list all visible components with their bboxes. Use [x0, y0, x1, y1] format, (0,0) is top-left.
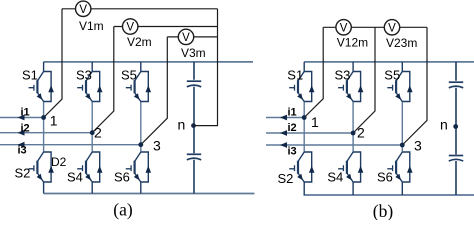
- node 1 (a): [41, 115, 46, 120]
- svg-text:i1: i1: [288, 106, 297, 118]
- transistor S6b (IGBT with antiparallel diode): [387, 152, 412, 195]
- svg-text:i1: i1: [21, 106, 30, 118]
- capacitor C1 (a upper): [187, 81, 201, 87]
- svg-text:S6: S6: [377, 170, 393, 185]
- svg-text:n: n: [178, 116, 186, 132]
- transistor S2 (IGBT with antiparallel diode): [29, 152, 54, 194]
- svg-text:(a): (a): [113, 200, 133, 220]
- wire: phase current line i2 (b): [266, 132, 353, 134]
- svg-text:i3: i3: [18, 145, 27, 157]
- wire: phase current line i3 (a): [0, 144, 141, 146]
- wire: leg 3 midpoint run (a): [140, 101, 142, 153]
- svg-text:2: 2: [357, 125, 365, 141]
- wire: phase current line i3 (b): [266, 144, 402, 146]
- transistor S2b (IGBT with antiparallel diode): [289, 152, 314, 195]
- voltmeter V3m: [178, 29, 193, 44]
- capacitor C2 (a lower): [187, 154, 201, 160]
- transistor S3 (IGBT with antiparallel diode): [77, 62, 102, 102]
- svg-text:S4: S4: [67, 170, 83, 185]
- wire: V1m leads (a): [44, 9, 218, 118]
- svg-text:2: 2: [94, 125, 102, 141]
- svg-text:S3: S3: [76, 68, 92, 83]
- svg-text:S3: S3: [335, 68, 351, 83]
- svg-text:S4: S4: [327, 170, 343, 185]
- transistor S4 (IGBT with antiparallel diode): [77, 152, 102, 194]
- svg-text:S1: S1: [287, 68, 303, 83]
- svg-text:i2: i2: [288, 122, 297, 134]
- wire: phase current line i1 (a): [0, 117, 44, 119]
- wire: DC-link capacitor branch (b): [455, 62, 457, 195]
- svg-text:1: 1: [50, 113, 58, 129]
- wire: V23m right lead (b): [400, 27, 427, 145]
- node 2 (a): [90, 130, 95, 135]
- svg-text:V2m: V2m: [127, 35, 152, 49]
- svg-text:S5: S5: [384, 68, 400, 83]
- node 2 (b): [351, 131, 356, 136]
- svg-text:V: V: [340, 23, 348, 35]
- wire: voltmeter return to neutral n (a): [194, 9, 218, 126]
- transistor S1b (IGBT with antiparallel diode): [289, 62, 314, 102]
- wire: V12m leads (b): [304, 27, 384, 117]
- transistor S3b (IGBT with antiparallel diode): [338, 62, 363, 102]
- svg-text:V: V: [182, 32, 190, 44]
- svg-text:3: 3: [414, 138, 422, 154]
- wire: V12m/V23m node-2 tap (b): [353, 27, 375, 133]
- wire: DC- bottom bus (b): [304, 194, 474, 196]
- svg-text:S5: S5: [121, 68, 137, 83]
- node 3 (b): [400, 143, 405, 148]
- svg-text:V: V: [79, 4, 87, 16]
- wire: phase current line i2 (a): [0, 132, 92, 134]
- svg-text:V1m: V1m: [79, 19, 104, 33]
- wire: leg 2 midpoint run (a): [91, 101, 93, 153]
- capacitor C1 (b upper): [449, 82, 463, 88]
- capacitor C2 (b lower): [449, 156, 463, 162]
- transistor S4b (IGBT with antiparallel diode): [338, 152, 363, 195]
- svg-text:S6: S6: [114, 170, 130, 185]
- node 3 (a): [138, 142, 143, 147]
- wire: DC+ top bus (b): [304, 61, 474, 63]
- svg-text:(b): (b): [373, 201, 394, 220]
- voltmeter V2m: [123, 19, 138, 34]
- wire: DC- bottom bus (a): [44, 193, 255, 195]
- svg-text:D2: D2: [51, 155, 67, 169]
- wire: phase current line i1 (b): [266, 117, 304, 119]
- transistor S6 (IGBT with antiparallel diode): [126, 152, 151, 194]
- wire: leg 3 midpoint run (b): [401, 101, 403, 153]
- svg-text:S2: S2: [15, 166, 31, 181]
- wire: DC-link capacitor branch (a): [193, 62, 195, 194]
- svg-text:V3m: V3m: [181, 46, 206, 60]
- wire: leg 2 midpoint run (b): [352, 101, 354, 153]
- svg-text:S1: S1: [22, 68, 38, 83]
- transistor S5 (IGBT with antiparallel diode): [126, 62, 151, 102]
- voltmeter V23m: [384, 20, 399, 35]
- svg-text:i2: i2: [21, 122, 30, 134]
- wire: leg 1 midpoint run (b): [303, 101, 305, 153]
- svg-text:1: 1: [311, 114, 319, 130]
- svg-text:3: 3: [153, 138, 161, 154]
- svg-text:V: V: [388, 23, 396, 35]
- svg-text:V23m: V23m: [386, 36, 417, 50]
- svg-text:V: V: [126, 22, 134, 34]
- node 1 (b): [302, 115, 307, 120]
- wire: V3m leads (a): [141, 37, 218, 145]
- node n (a): [191, 123, 196, 128]
- wire: V2m leads (a): [92, 27, 217, 133]
- voltmeter V1m: [76, 1, 91, 16]
- svg-text:S2: S2: [278, 171, 294, 186]
- voltmeter V12m: [336, 20, 351, 35]
- transistor S5b (IGBT with antiparallel diode): [387, 62, 412, 102]
- svg-text:n: n: [440, 116, 448, 132]
- transistor S1 (IGBT with antiparallel diode): [29, 62, 54, 102]
- svg-text:i3: i3: [288, 146, 297, 158]
- node n (b): [453, 124, 458, 129]
- wire: leg 1 midpoint run (a): [43, 101, 45, 153]
- svg-text:V12m: V12m: [337, 36, 368, 50]
- wire: DC+ top bus (a): [44, 61, 253, 63]
